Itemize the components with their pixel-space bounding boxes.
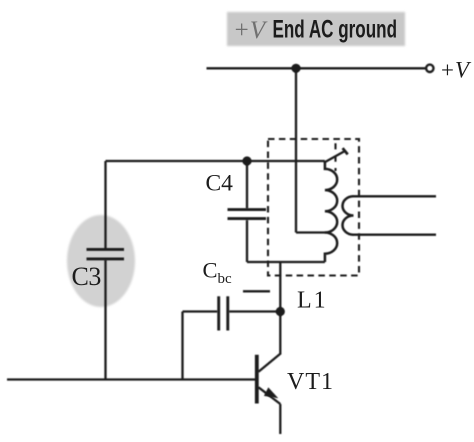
svg-text:C4: C4 (206, 171, 234, 197)
svg-text:+V: +V (440, 58, 473, 83)
svg-text:+V: +V (233, 17, 268, 44)
svg-text:L1: L1 (297, 288, 328, 314)
svg-text:End AC ground: End AC ground (273, 16, 398, 44)
svg-text:C3: C3 (72, 262, 101, 291)
svg-text:VT1: VT1 (287, 369, 334, 395)
